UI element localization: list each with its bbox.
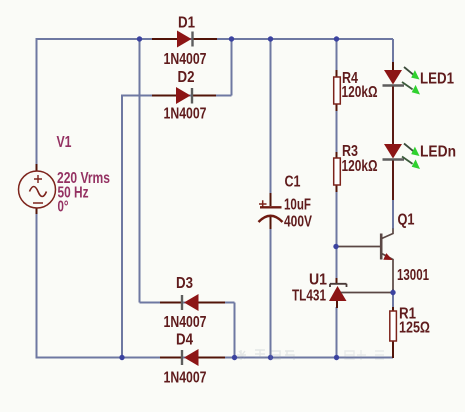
wire C1 branch lower bbox=[270, 228, 272, 358]
diode D1 bbox=[152, 31, 217, 48]
wire D2 anode to bottom rail vertical bbox=[121, 95, 123, 358]
svg-text:1N4007: 1N4007 bbox=[164, 370, 207, 387]
junction top rail C1 node bbox=[268, 36, 273, 41]
svg-text:0°: 0° bbox=[58, 199, 69, 216]
wire bottom rail bbox=[37, 357, 394, 359]
junction bottom rail U1 node bbox=[334, 355, 339, 360]
svg-text:D3: D3 bbox=[176, 275, 193, 292]
capacitor C1 bbox=[259, 193, 283, 229]
wire U1 anode to bottom rail bbox=[336, 307, 338, 358]
junction bottom rail D2 node bbox=[119, 355, 124, 360]
svg-text:10uF: 10uF bbox=[284, 197, 311, 214]
diode D4 bbox=[160, 349, 225, 366]
svg-text:13001: 13001 bbox=[397, 267, 429, 284]
wire D2 cathode riser bbox=[231, 39, 233, 96]
diode D3 bbox=[160, 294, 225, 311]
wire top rail to D3 vertical bbox=[139, 39, 141, 303]
wire C1 branch upper bbox=[270, 39, 272, 194]
LED LEDn bbox=[383, 144, 421, 201]
svg-text:V1: V1 bbox=[57, 134, 72, 151]
junction top rail D3-feed node bbox=[137, 36, 142, 41]
svg-text:TL431: TL431 bbox=[292, 288, 326, 305]
resistor R4 bbox=[334, 70, 341, 111]
svg-text:LED1: LED1 bbox=[420, 71, 454, 88]
svg-text:120kΩ: 120kΩ bbox=[342, 84, 378, 101]
shunt regulator U1 TL431 bbox=[329, 278, 393, 308]
svg-text:U1: U1 bbox=[309, 272, 327, 289]
svg-text:400V: 400V bbox=[284, 214, 312, 231]
junction top rail R4 node bbox=[334, 36, 339, 41]
svg-text:D4: D4 bbox=[176, 332, 193, 349]
junction top rail D2 node bbox=[229, 36, 234, 41]
watermark faint marks right bbox=[345, 350, 384, 360]
wire LEDn to Q1 collector bbox=[392, 199, 394, 229]
junction Q1 base node bbox=[333, 244, 338, 249]
svg-text:1N4007: 1N4007 bbox=[164, 314, 207, 331]
wire D3 horizontal bbox=[140, 302, 235, 304]
wire D3 anode dropper bbox=[234, 303, 236, 358]
wire left vertical lower bbox=[36, 213, 38, 359]
svg-text:Q1: Q1 bbox=[398, 212, 415, 229]
resistor R3 bbox=[334, 152, 341, 192]
junction bottom rail C1 node bbox=[268, 355, 273, 360]
svg-text:1N4007: 1N4007 bbox=[164, 51, 207, 68]
AC source V1 bbox=[19, 164, 56, 214]
svg-text:D2: D2 bbox=[178, 69, 195, 86]
wire R4 branch bbox=[336, 39, 338, 72]
wire R4 to R3 bbox=[336, 110, 338, 154]
svg-text:LEDn: LEDn bbox=[420, 144, 456, 161]
wire Q1 emitter node to R1 bbox=[392, 289, 394, 311]
diode D2 bbox=[152, 87, 216, 104]
transistor Q1 bbox=[338, 229, 394, 291]
svg-text:125Ω: 125Ω bbox=[399, 319, 430, 336]
resistor R1 bbox=[390, 307, 397, 358]
svg-text:C1: C1 bbox=[285, 174, 301, 191]
wire LED string upper bbox=[392, 39, 394, 64]
svg-text:D1: D1 bbox=[178, 15, 195, 32]
wire R3 to Q1 base node bbox=[336, 191, 338, 279]
wire D2 horizontal bbox=[122, 95, 232, 97]
svg-text:1N4007: 1N4007 bbox=[164, 106, 207, 123]
junction bottom rail D3 node bbox=[232, 355, 237, 360]
wire top rail bbox=[37, 38, 394, 40]
wire left vertical upper bbox=[36, 38, 38, 165]
junction Q1 emitter node bbox=[390, 290, 395, 295]
watermark bbox=[237, 350, 294, 360]
LED LED1 bbox=[383, 62, 421, 144]
svg-text:120kΩ: 120kΩ bbox=[342, 158, 378, 175]
